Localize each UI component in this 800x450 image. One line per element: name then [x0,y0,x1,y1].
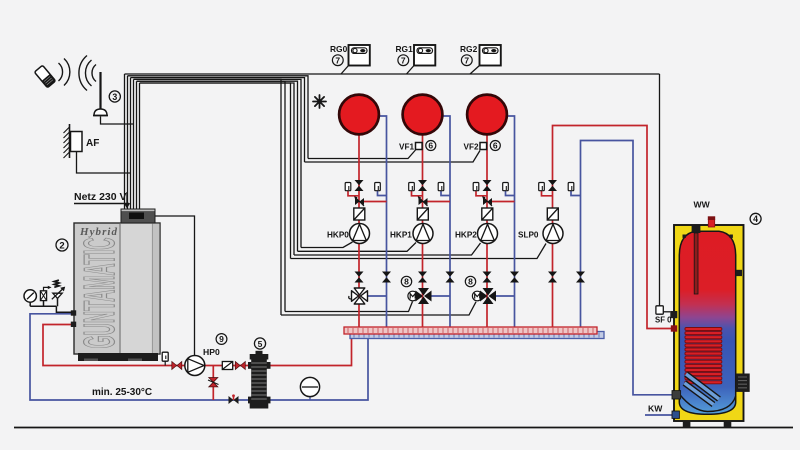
valve return line [229,394,239,404]
pump SLP0 [543,224,563,244]
valve HK2 supply [483,180,492,191]
red pipe HK2 supply [486,135,488,327]
room unit RG2 [460,44,501,66]
svg-text:8: 8 [468,277,473,287]
heating circuit circle HK2 [467,95,507,135]
tank anode [692,226,701,234]
valve HK1 lower [418,272,427,283]
tank coil inlet fitting [671,325,677,331]
blue pipe KW inlet [645,414,676,416]
room unit RG0 [330,44,370,66]
ground line [14,427,793,429]
mixing valve HK0 (4-way) [352,288,368,304]
pump HP0 [185,356,205,376]
valve SLP0 lower [548,272,557,283]
callout 8 HK2 [465,276,475,286]
svg-text:6: 6 [493,141,498,151]
tank SF port [670,311,677,318]
tank KW stub [672,411,679,418]
valve SLP0 return lower [576,272,585,283]
valve HK1 return lower [446,272,455,283]
svg-text:RG2: RG2 [460,44,478,54]
blue pipe HK1 return [442,116,451,330]
wire pump SLP0 run [291,244,547,259]
label KW [648,404,663,414]
wire band to pump risers [134,79,302,247]
red pipe boiler supply [43,325,185,366]
room unit RG1 [396,44,436,66]
antenna [93,72,108,116]
red pipe HK0 supply [358,135,360,327]
red pipe bypass min temp [212,366,214,401]
radio waves phone [59,59,70,86]
svg-text:SF 0: SF 0 [655,316,672,325]
red pipe vent stub HK0 [348,191,359,196]
svg-text:7: 7 [335,55,340,65]
callout 2 boiler [56,239,68,252]
pump HKP1 [413,224,433,244]
valve HK0 return lower [382,272,391,283]
boiler GUNTAMATIC [71,209,160,361]
wire bus riser group at boiler top [125,74,140,210]
svg-text:7: 7 [401,55,406,65]
callout 3 antenna [109,91,120,102]
air vent HK2 right [503,183,509,191]
svg-text:8: 8 [404,277,409,287]
tank cold water inlet diagonal [685,374,720,405]
svg-text:KW: KW [648,404,663,414]
wire mixer M2 run [281,302,476,315]
wire band to VF1 riser [128,76,309,159]
boiler connection stub supply [71,322,76,327]
heating circuit circle HK1 [403,95,443,135]
red pipe checkvalve bypass HK0 [363,201,387,203]
svg-text:GUNTAMATIC: GUNTAMATIC [75,238,124,349]
wire mixer M1 run [285,302,413,312]
svg-text:HKP0: HKP0 [327,231,349,240]
callout 6 VF2 [490,141,500,151]
wire RG2 drop [470,66,480,75]
svg-text:6: 6 [428,141,433,151]
filter SLP0 [547,208,558,220]
mixer motor M2 [472,291,482,301]
svg-text:HKP1: HKP1 [390,231,412,240]
safety group piping [30,298,72,312]
callout 8 HK1 [401,276,411,286]
blue pipe HK2 return [506,116,515,330]
red pipe HP0 to HX [204,365,250,367]
wire boiler to HP0 pump [155,216,195,356]
wire pump HKP2 run [294,243,481,255]
valve SLP0 supply [548,180,557,191]
svg-text:Netz 230 V: Netz 230 V [74,191,127,203]
thermometer [300,377,319,400]
wire band top: RG/SF wire [125,73,660,75]
mixing valve HK2 (motor 3-way) [480,288,496,304]
manifold blue bar [350,332,604,339]
air vent HK1 left [409,183,415,191]
manifold red bar [344,327,597,334]
valve HK0 supply [355,180,364,191]
sensor pocket boiler outlet [162,352,168,365]
filter HP0 [222,362,232,370]
boiler control panel [121,209,155,223]
blue pipe mixer bypass HK0 [366,295,387,297]
heat exchanger [248,351,271,409]
red pipe checkvalve bypass HK1 [427,201,451,203]
red pipe SLP0 riser [553,126,676,329]
filter HK1 [417,208,428,220]
check valve HK2 [483,197,493,207]
red pipe vent stub HK2 [476,191,487,196]
svg-text:RG1: RG1 [396,44,414,54]
valve HK2 return lower [510,272,519,283]
wire SF0 drop [659,74,661,306]
air vent HK2 left [473,183,479,191]
wire RG0 drop [341,66,349,75]
wire RG1 drop [407,66,415,75]
wire VF2 run [305,151,481,163]
boiler connection stub return [71,310,76,315]
blue pipe vent stub HK2 [506,191,515,196]
tank bottom dish line [679,394,735,412]
blue pipe boiler return [30,314,250,400]
air vent SLP0 right [568,183,574,191]
callout 9 HP0 [216,334,227,345]
red pipe HK1 supply [422,135,424,327]
svg-text:7: 7 [464,55,469,65]
blue pipe vent stub HK1 [441,191,450,196]
valve HK1 supply [418,180,427,191]
wire pump HKP0 run [301,242,353,248]
mixing valve HK1 (motor 3-way) [416,288,432,304]
pump HKP2 [478,224,498,244]
red supply pipes [43,126,675,401]
wire VF1 run [308,150,416,159]
blue pipe mixer bypass HK2 [494,295,515,297]
svg-text:VF1: VF1 [399,143,414,152]
blue pipe vent stub SLP [571,191,581,196]
valve HP0 suction [172,362,182,370]
heating circuit circle HK0 [339,95,379,135]
filter HK0 [354,208,365,220]
air vent HK1 right [438,183,444,191]
red pipe vent stub HK1 [412,191,423,196]
boiler plinth [78,353,158,361]
tank coil [685,328,722,384]
svg-text:VF2: VF2 [464,143,479,152]
tank port upper right [736,270,742,276]
mobile phone [34,65,55,87]
Netz 230 V label [74,191,130,209]
tank legs [683,421,691,428]
svg-text:2: 2 [59,241,64,252]
wire band to mixer risers [137,81,286,311]
blue return pipes [30,116,676,415]
pressure gauge [24,290,36,302]
svg-text:9: 9 [219,334,224,344]
svg-text:Hybrid: Hybrid [79,226,118,238]
svg-text:RG0: RG0 [330,44,348,54]
blue pipe HK0 return [378,116,387,330]
svg-text:AF: AF [86,138,99,149]
check valve HK1 [418,197,428,207]
asterisk [313,95,326,108]
svg-text:HKP2: HKP2 [455,231,477,240]
callout 7 RG0 [332,55,343,66]
outdoor sensor AF [64,124,100,158]
mixer motor M1 [408,291,418,301]
valve HK2 lower [483,272,492,283]
valve HK0 lower [355,272,364,283]
filter HK2 [482,208,493,220]
pump HKP0 [350,224,370,244]
wire antenna lead [101,117,134,125]
check valve HK0 [355,197,365,207]
blue pipe mixer bypass HK1 [430,295,450,297]
air vent HK0 left [345,183,351,191]
safety valve with spring [52,280,65,299]
svg-text:3: 3 [112,92,117,102]
check valve HP0 [235,362,245,370]
sensor VF1 [416,143,423,150]
callout 5 heat exchanger [254,338,265,349]
tank coil return fittings [672,391,681,399]
wire AF lead [77,151,131,173]
wire band to VF2 riser [131,78,305,162]
svg-text:min. 25-30°C: min. 25-30°C [92,387,152,398]
svg-text:SLP0: SLP0 [518,231,539,240]
expansion connector [40,286,51,301]
wire pump HKP1 run [298,243,417,252]
red pipe vent stub SLP [542,191,553,196]
hot water tank [670,216,749,427]
tank WW outlet stub [708,220,714,228]
bypass valve min temp [208,378,219,387]
svg-text:4: 4 [753,214,758,224]
sensor SF0 elbow [655,306,672,325]
tank vessel gradient [0,0,1,1]
sensor VF2 [480,143,487,150]
callout 6 VF1 [426,141,436,151]
red pipe HX to manifold [268,334,352,366]
svg-text:WW: WW [694,200,711,210]
svg-text:5: 5 [258,339,263,349]
bus wiring from boiler [77,66,660,356]
red pipe checkvalve bypass HK2 [491,201,515,203]
callout 4 tank [750,213,761,224]
air vent HK0 right [375,183,381,191]
tank body yellow [674,225,744,421]
blue pipe tank return [581,141,676,395]
svg-text:HP0: HP0 [203,347,220,357]
radio waves antenna [79,56,96,91]
tank flange right [736,374,750,392]
blue pipe vent stub HK0 [378,191,387,196]
callout 7 RG2 [461,55,472,66]
blue pipe HX to manifold [268,333,369,400]
air vent SLP0 left [539,183,545,191]
callout 7 RG1 [398,55,409,66]
